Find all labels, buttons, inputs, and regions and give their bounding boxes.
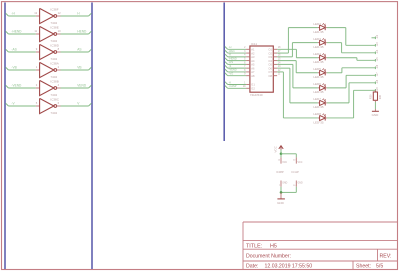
svg-text:IC11: IC11 — [251, 42, 257, 46]
IC11 pin 6 (A5) — [244, 62, 255, 66]
wire net -CASP from bus B3 to IC11 pin G2 — [225, 86, 246, 89]
IC11 pin 13 (O6) — [268, 66, 281, 70]
title block text Date — [246, 263, 312, 269]
svg-text:Sheet:: Sheet: — [356, 263, 371, 269]
wire net -VEND from bus B3 to IC11 pin A7 — [225, 69, 246, 72]
wire from LED7 to net flag — [327, 83, 376, 103]
wire net H from gate to bus B2 — [61, 13, 92, 16]
wire from LED3 to net flag — [327, 43, 376, 53]
svg-text:-VEND: -VEND — [229, 68, 237, 72]
IC11 pin 2 (A1) — [244, 47, 255, 51]
wire net -H from bus B3 to IC11 pin A1 — [225, 47, 246, 50]
inverter IC38B pin 3 input stub — [36, 83, 40, 88]
inverter gate IC38E 7404 — [40, 26, 57, 41]
svg-text:-CASP: -CASP — [229, 84, 237, 88]
IC11 pin 11 (O8) — [268, 74, 281, 78]
svg-text:-HEND: -HEND — [229, 56, 237, 60]
svg-text:A8: A8 — [251, 74, 255, 78]
svg-text:REV:: REV: — [380, 254, 392, 260]
wire net -HEND from bus B1 to gate — [6, 31, 36, 34]
svg-text:A2: A2 — [251, 51, 255, 55]
svg-text:-E4: -E4 — [376, 49, 379, 54]
svg-text:LED2: LED2 — [313, 22, 321, 26]
title block text TITLE: H5 — [246, 244, 277, 250]
net stub flag 1 — [372, 37, 376, 39]
inverter output pin 12 stub — [57, 11, 61, 16]
svg-text:R30: R30 — [369, 94, 373, 99]
LED LED6 — [318, 84, 327, 91]
IC11 pin 3 (A2) — [244, 51, 255, 55]
net flag -E8 — [375, 79, 379, 84]
wire from LED5 to net flag — [327, 68, 376, 73]
inverter output pin 2 stub — [57, 65, 61, 70]
inverter output pin 8 stub — [57, 47, 61, 52]
IC11 pin 14 (O5) — [268, 62, 281, 66]
wire net -K from bus B3 to IC11 pin A3 — [225, 54, 246, 57]
svg-text:12: 12 — [58, 11, 61, 15]
svg-text:A7: A7 — [251, 70, 255, 74]
inverter gate IC38C 7404 — [40, 98, 57, 113]
IC U-IC11 74HC540 body — [250, 46, 273, 92]
svg-text:LED-35: LED-35 — [313, 90, 324, 94]
svg-text:VCC: VCC — [298, 162, 303, 164]
svg-text:LED7: LED7 — [313, 97, 321, 101]
svg-text:IC38F: IC38F — [50, 7, 58, 11]
svg-text:LED-35: LED-35 — [313, 45, 324, 49]
svg-text:LED-35: LED-35 — [313, 75, 324, 79]
inverter IC38D pin 9 input stub — [36, 47, 40, 52]
svg-text:7404: 7404 — [50, 93, 57, 97]
svg-text:-VB: -VB — [11, 66, 16, 70]
svg-text:H5: H5 — [270, 244, 277, 250]
wire net V from gate to bus B2 — [61, 103, 92, 106]
wire net VEND from gate to bus B2 — [61, 85, 92, 88]
IC11 pin 16 (O3) — [268, 55, 281, 59]
wire net HEND from gate to bus B2 — [61, 31, 92, 34]
IC11 pin 5 (A4) — [244, 59, 255, 63]
svg-text:AS: AS — [77, 47, 81, 51]
svg-text:LED-35: LED-35 — [313, 105, 324, 109]
svg-text:TITLE:: TITLE: — [246, 244, 262, 250]
IC11 pin 1 (G1) — [244, 82, 255, 86]
svg-text:-H: -H — [229, 45, 232, 49]
svg-text:O4: O4 — [268, 59, 272, 63]
svg-text:-E3: -E3 — [376, 42, 379, 47]
svg-text:330: 330 — [378, 94, 382, 99]
wire from IC11 O4 to LED5 — [277, 61, 318, 73]
svg-text:13: 13 — [34, 11, 37, 15]
title block — [243, 222, 398, 270]
svg-text:Date:: Date: — [246, 263, 258, 269]
LED LED3 — [318, 38, 327, 45]
wire net -K from bus B3 to IC11 pin G1 — [225, 82, 246, 85]
wire from LED6 to net flag — [327, 75, 376, 88]
bus B3 (right section) — [223, 3, 225, 142]
wire net -AS from bus B1 to gate — [6, 49, 36, 52]
net flag -E5 — [375, 57, 379, 62]
svg-text:LED-35: LED-35 — [313, 60, 324, 64]
svg-text:-E8: -E8 — [376, 79, 379, 84]
svg-text:-E6: -E6 — [376, 64, 379, 69]
resistor R30 — [369, 90, 382, 102]
ground GND (right) — [372, 109, 380, 117]
svg-text:G2: G2 — [251, 87, 255, 91]
inverter output pin 4 stub — [57, 83, 61, 88]
svg-text:A3: A3 — [251, 55, 255, 59]
svg-text:7404: 7404 — [50, 111, 57, 115]
svg-text:LED-35: LED-35 — [313, 120, 324, 124]
bus B2 (middle) — [91, 3, 93, 270]
svg-text:12.03.2019 17:55:50: 12.03.2019 17:55:50 — [265, 263, 313, 269]
svg-text:-E2: -E2 — [376, 34, 379, 39]
svg-text:IC38D: IC38D — [50, 43, 59, 47]
IC11 pin 12 (O7) — [268, 70, 281, 74]
svg-text:VEND: VEND — [77, 83, 87, 87]
inverter gate IC38A 7404 — [40, 62, 57, 77]
svg-text:5/5: 5/5 — [376, 263, 383, 269]
svg-text:-RH1: -RH1 — [229, 49, 236, 53]
svg-text:LED5: LED5 — [313, 67, 321, 71]
svg-text:LED-35: LED-35 — [313, 30, 324, 34]
wire to IC38P VCC pin — [280, 154, 282, 158]
svg-text:HEND: HEND — [77, 29, 87, 33]
net flag -E6 — [375, 64, 379, 69]
svg-text:O1: O1 — [268, 48, 272, 52]
svg-text:A1: A1 — [251, 48, 255, 52]
svg-text:-K: -K — [229, 53, 232, 57]
wire from IC11 O5 to LED6 — [277, 64, 318, 87]
wire net -VG from bus B3 to IC11 pin A8 — [225, 73, 246, 76]
wire from IC11 O6 to LED7 — [277, 68, 318, 103]
svg-text:A5: A5 — [251, 63, 255, 67]
svg-text:VCC: VCC — [282, 162, 287, 164]
inverter IC38F pin 13 input stub — [34, 11, 39, 16]
IC11 pin 4 (A3) — [244, 55, 255, 59]
wire net -V from bus B1 to gate — [6, 103, 36, 106]
junction node GND — [280, 191, 283, 194]
svg-text:-HEND: -HEND — [11, 30, 22, 34]
IC11 pin 8 (A7) — [244, 70, 255, 74]
ground GND (power section) — [277, 192, 285, 205]
LED LED8 — [318, 114, 327, 121]
svg-text:IC38A: IC38A — [50, 61, 58, 65]
svg-text:VB: VB — [77, 65, 81, 69]
svg-text:7404: 7404 — [50, 21, 57, 25]
svg-text:A6: A6 — [251, 66, 255, 70]
svg-text:G1: G1 — [251, 83, 255, 87]
svg-text:GND: GND — [282, 182, 287, 184]
wire net VB from gate to bus B2 — [61, 67, 92, 70]
svg-text:O6: O6 — [268, 66, 272, 70]
wire IC11P GND down and across — [281, 187, 296, 193]
svg-text:GND: GND — [298, 182, 303, 184]
wire from IC11 O1 to LED2 — [277, 49, 318, 57]
svg-text:7404: 7404 — [50, 39, 57, 43]
IC11 pin 9 (A8) — [244, 74, 255, 78]
wire from LED8 to net flag — [327, 90, 376, 118]
svg-text:LED4: LED4 — [313, 52, 321, 56]
wire VCC to junction — [280, 150, 282, 154]
inverter output pin 6 stub — [57, 101, 61, 106]
LED LED2 — [318, 23, 327, 30]
wire from IC11 O2 to LED3 — [277, 28, 318, 53]
wire from LED4 to net flag — [327, 58, 376, 61]
svg-text:LED8: LED8 — [313, 112, 321, 116]
inverter IC38C pin 5 input stub — [36, 101, 40, 106]
svg-text:-K: -K — [229, 80, 232, 84]
svg-text:-RS: -RS — [229, 60, 234, 64]
wire net -VEND from bus B1 to gate — [6, 85, 36, 88]
svg-text:IC38B: IC38B — [50, 79, 58, 83]
IC11 pin 15 (O4) — [268, 59, 281, 63]
wire IC38P GND pin down — [280, 187, 282, 193]
LED LED5 — [318, 68, 327, 75]
wire to IC11P VCC pin — [295, 154, 297, 158]
wire net -RS from bus B3 to IC11 pin A5 — [225, 62, 246, 65]
wire from IC11 O3 to LED4 — [277, 43, 318, 57]
svg-text:GND: GND — [372, 113, 380, 117]
title block text Sheet — [356, 263, 383, 269]
wire net AS from gate to bus B2 — [61, 49, 92, 52]
net flag -E3 — [375, 42, 379, 47]
svg-text:IC38C: IC38C — [50, 97, 59, 101]
svg-text:VCC: VCC — [274, 145, 278, 152]
svg-text:-VEND: -VEND — [11, 84, 22, 88]
svg-text:O5: O5 — [268, 63, 272, 67]
inverter gate IC38B 7404 — [40, 80, 57, 95]
svg-text:Document Number:: Document Number: — [246, 254, 291, 260]
wire resistor to ground — [374, 102, 376, 109]
svg-text:-AS: -AS — [11, 48, 16, 52]
svg-text:O3: O3 — [268, 55, 272, 59]
IC11 pin 19 (G2) — [243, 86, 255, 90]
inverter output pin 10 stub — [57, 29, 61, 34]
svg-text:-E5: -E5 — [376, 57, 379, 62]
wire from LED2 to net flag — [327, 28, 376, 46]
bus B1 (left) — [4, 3, 6, 270]
svg-text:GND: GND — [277, 201, 285, 205]
supply VCC — [274, 145, 284, 152]
svg-text:IC38P: IC38P — [276, 170, 284, 174]
wire net -RH1 from bus B3 to IC11 pin A2 — [225, 50, 246, 53]
svg-text:74HC540: 74HC540 — [250, 93, 263, 97]
inverter IC38A pin 1 input stub — [36, 65, 40, 70]
IC11 pin 18 (O1) — [268, 47, 281, 51]
IC11 pin 17 (O2) — [268, 51, 281, 55]
svg-text:7404: 7404 — [50, 57, 57, 61]
svg-text:IC38E: IC38E — [50, 25, 58, 29]
svg-text:-VG: -VG — [229, 71, 234, 75]
svg-text:-E7: -E7 — [376, 72, 379, 77]
net flag -E9 — [375, 87, 379, 92]
svg-text:10: 10 — [58, 29, 61, 33]
LED LED7 — [318, 99, 327, 106]
inverter gate IC38F 7404 — [40, 8, 57, 23]
IC11P power gate — [292, 157, 303, 186]
net flag -E2 — [375, 34, 379, 39]
svg-text:LED6: LED6 — [313, 82, 321, 86]
wire net -VB from bus B1 to gate — [6, 67, 36, 70]
svg-text:-E9: -E9 — [376, 87, 379, 92]
wire from IC11 O7 to LED8 — [277, 72, 318, 118]
wire VCC rail — [281, 153, 296, 155]
svg-text:7404: 7404 — [50, 75, 57, 79]
svg-text:LED3: LED3 — [313, 37, 321, 41]
net flag -E7 — [375, 72, 379, 77]
wire net -H from bus B1 to gate — [6, 13, 36, 16]
wire net -S from bus B3 to IC11 pin A6 — [225, 65, 246, 68]
junction node VCC — [280, 153, 283, 156]
svg-text:A4: A4 — [251, 59, 255, 63]
inverter gate IC38D 7404 — [40, 44, 57, 59]
wire net -HEND from bus B3 to IC11 pin A4 — [225, 58, 246, 61]
net flag -E4 — [375, 49, 379, 54]
svg-text:-S: -S — [229, 64, 232, 68]
svg-text:O7: O7 — [268, 70, 272, 74]
inverter IC38E pin 11 input stub — [34, 29, 39, 34]
svg-text:IC11P: IC11P — [292, 170, 299, 174]
IC38P power gate — [276, 157, 287, 186]
IC11 pin 7 (A6) — [244, 66, 255, 70]
LED LED4 — [318, 53, 327, 60]
svg-text:O8: O8 — [268, 74, 272, 78]
svg-text:O2: O2 — [268, 51, 272, 55]
